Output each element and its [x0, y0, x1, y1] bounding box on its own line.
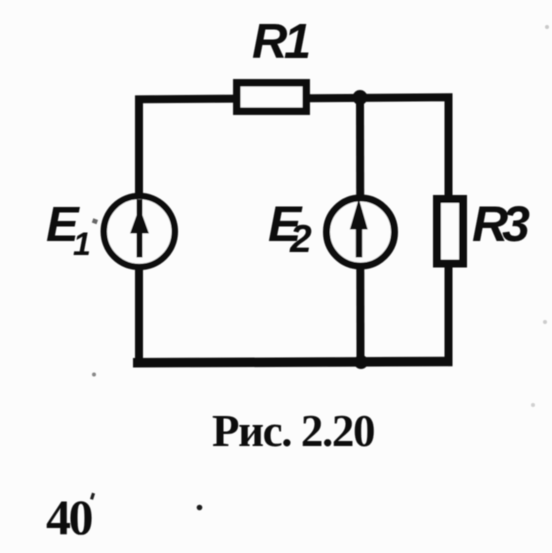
svg-text:R1: R1: [252, 15, 309, 69]
speck: faint dot right middle: [543, 320, 547, 324]
resistor R3 (vertical box in right branch): [437, 199, 463, 264]
svg-text:R3: R3: [472, 196, 530, 252]
speck: dot below E1 branch: [92, 373, 96, 377]
svg-text:40: 40: [46, 489, 93, 545]
speck: tick above page number: [90, 493, 95, 500]
speck: faint dot right lower: [531, 403, 535, 407]
svg-text:Рис. 2.20: Рис. 2.20: [212, 406, 374, 456]
label E1: [46, 198, 91, 262]
wire: bottom horizontal: [133, 362, 453, 363]
speck: dot right of page number: [197, 505, 203, 511]
node: bottom junction: [354, 355, 368, 369]
source E2 (circle with up arrow): [327, 198, 395, 266]
node: top junction: [353, 90, 368, 105]
svg-text:1: 1: [73, 226, 91, 262]
wire: middle branch vertical (E2 branch): [356, 98, 365, 363]
source E1 (circle with up arrow): [104, 196, 175, 267]
label E2: [268, 196, 312, 261]
wire: outer loop (left vertical, top horizontal, right vertical, bottom horizontal): [139, 97, 449, 358]
resistor R1 (horizontal box in top wire): [237, 83, 306, 111]
svg-text:2: 2: [289, 218, 312, 261]
speck: tick right of E1 label: [92, 218, 98, 224]
speck: faint dot top right: [545, 25, 549, 29]
